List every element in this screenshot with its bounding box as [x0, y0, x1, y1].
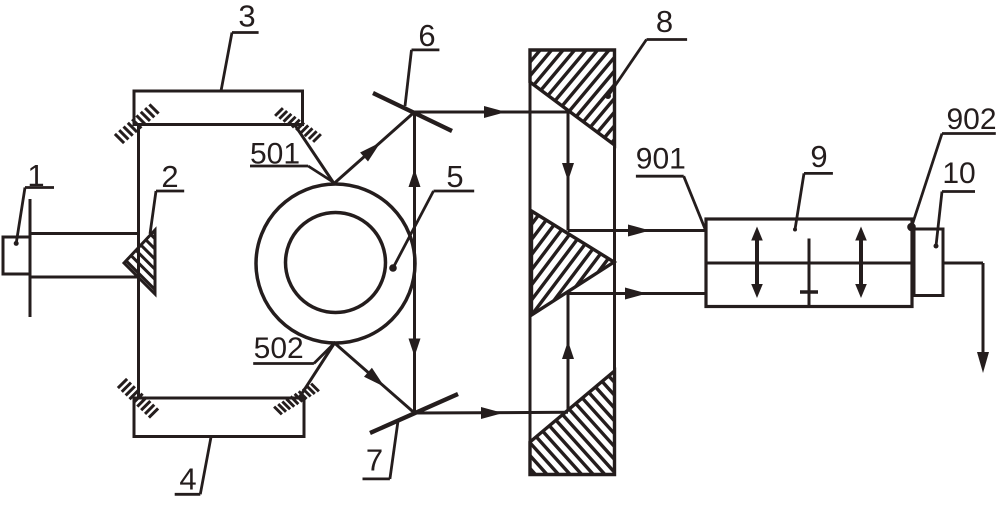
- svg-text:8: 8: [656, 4, 673, 39]
- svg-text:6: 6: [418, 18, 435, 53]
- svg-text:9: 9: [810, 139, 827, 174]
- svg-text:7: 7: [366, 443, 383, 478]
- svg-text:5: 5: [446, 159, 463, 194]
- svg-text:902: 902: [946, 103, 996, 136]
- svg-text:3: 3: [238, 0, 255, 34]
- svg-text:501: 501: [250, 138, 300, 171]
- svg-text:1: 1: [27, 158, 44, 193]
- svg-text:10: 10: [942, 157, 975, 190]
- svg-text:901: 901: [636, 143, 686, 176]
- svg-text:4: 4: [179, 462, 196, 497]
- svg-text:2: 2: [161, 159, 178, 194]
- svg-text:502: 502: [254, 332, 304, 365]
